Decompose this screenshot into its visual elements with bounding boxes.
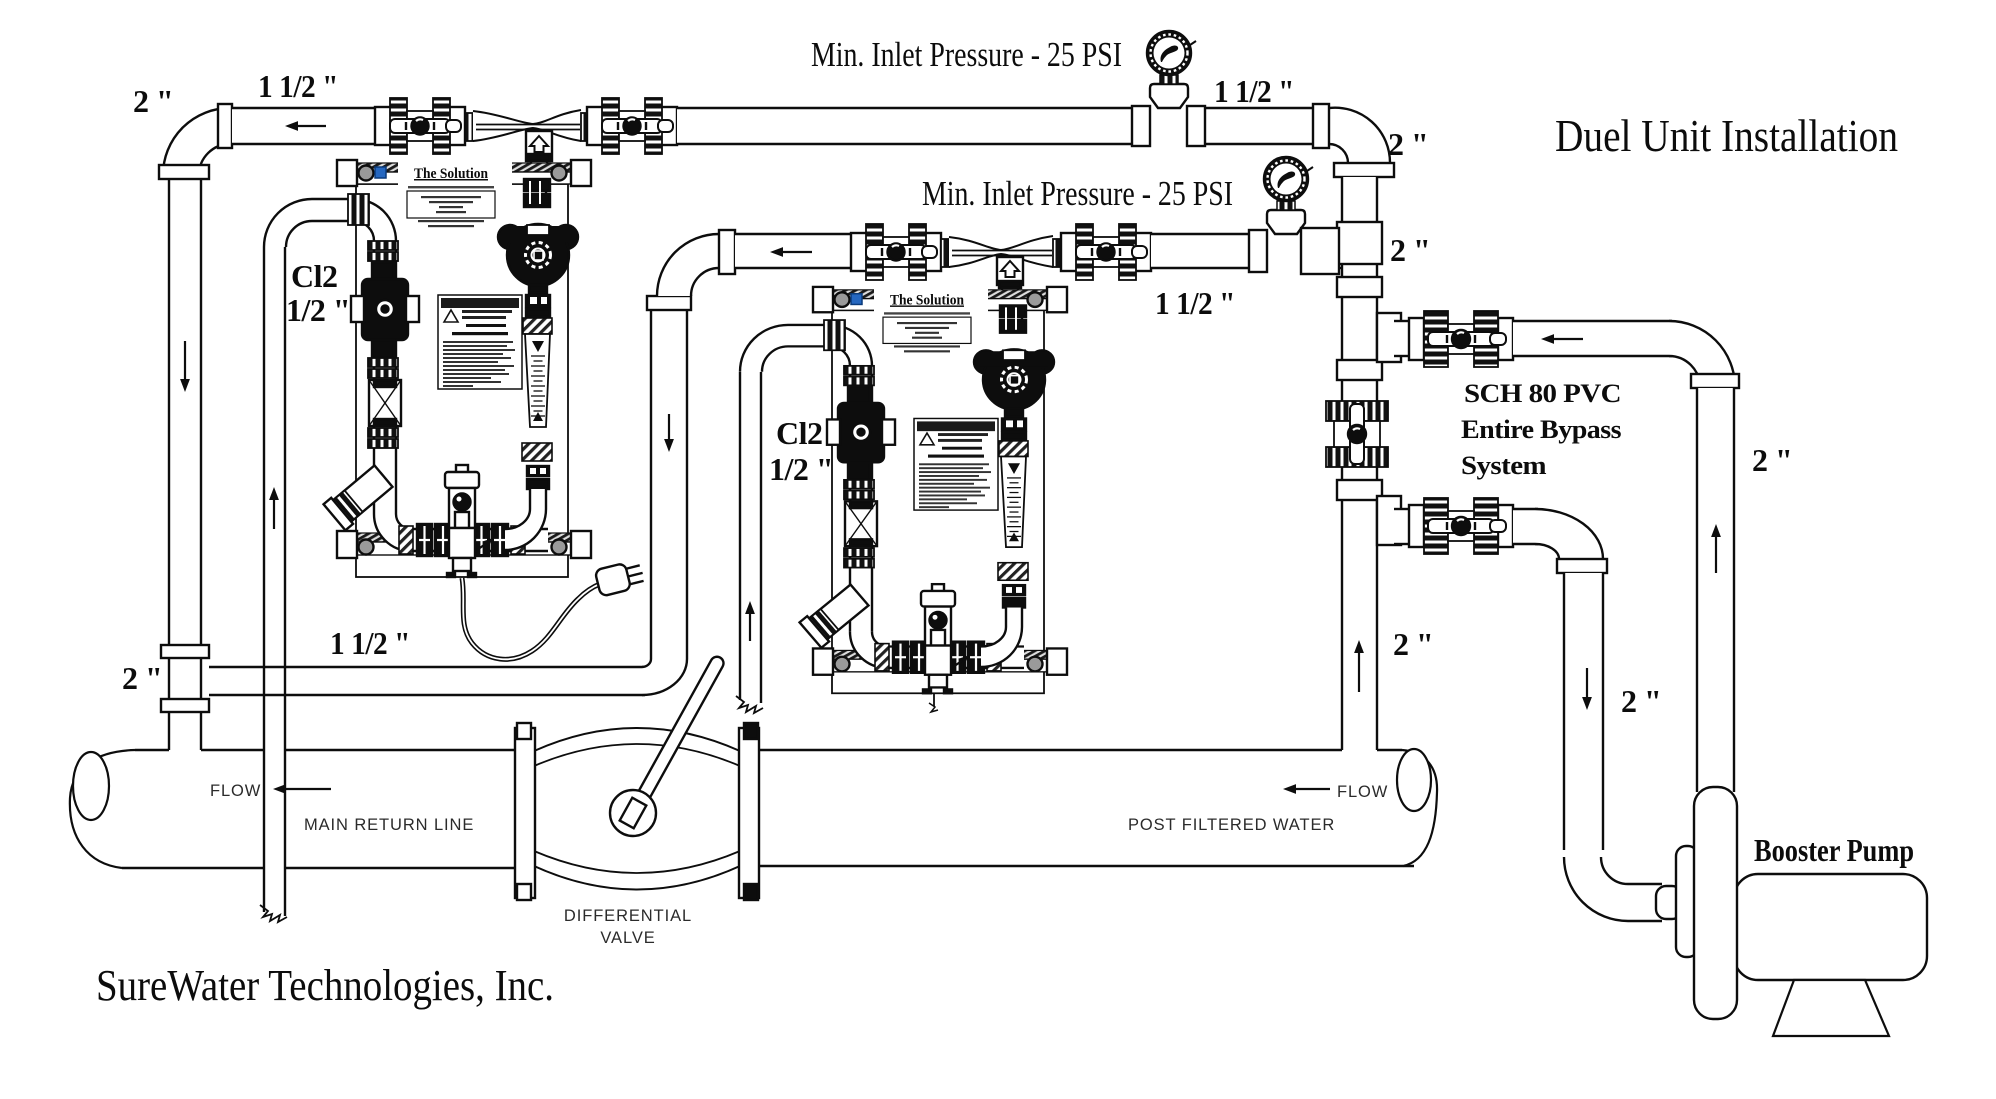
unit right bottom elbow xyxy=(505,509,546,550)
return pipe elbow up (E4) xyxy=(642,659,687,695)
unit bottom rail bolt left xyxy=(835,657,850,672)
unit1 Cl2 drop pipe xyxy=(263,247,265,912)
svg-text:Cl2: Cl2 xyxy=(776,415,823,451)
unit warning label box xyxy=(438,295,522,389)
venturi2 suction box and arrow fitting xyxy=(997,257,1023,285)
unit injection arrow mark xyxy=(953,657,967,667)
svg-text:1 1/2 ": 1 1/2 " xyxy=(330,625,410,661)
unit pump union xyxy=(1002,418,1026,430)
svg-text:Booster Pump: Booster Pump xyxy=(1754,832,1914,868)
unit manifold hatched nipple left xyxy=(399,526,413,554)
pressure gauge 1 dial xyxy=(1147,31,1191,75)
unit left union coupling 2 xyxy=(844,480,874,489)
run1 pipe segment B (long) xyxy=(677,108,1132,144)
unit left bottom elbow xyxy=(850,632,887,668)
column upper bypass tee xyxy=(1377,313,1401,362)
run1 venturi ribbed flange left xyxy=(465,113,473,141)
unit right suction pipe from venturi xyxy=(1006,305,1022,332)
pump inlet pipe xyxy=(1628,884,1662,921)
pressure gauge 2 stem xyxy=(1277,201,1295,210)
column tee coupling for run2 xyxy=(1337,222,1382,264)
solution unit panel frame xyxy=(832,310,1044,693)
svg-text:MAIN RETURN LINE: MAIN RETURN LINE xyxy=(304,816,474,834)
differential valve body xyxy=(534,728,740,890)
unit manifold hatched nipple left xyxy=(875,644,889,671)
unit left pipe top elbow xyxy=(354,199,396,241)
unit stub ribbed coupling xyxy=(824,320,845,350)
1 1/2 inch return pipe horizontal xyxy=(209,667,645,695)
unit check valve xyxy=(372,262,394,279)
unit right adapter blocks xyxy=(524,179,550,191)
bypass upper elbow (E5) xyxy=(1669,321,1735,387)
unit subtitle small text lines xyxy=(408,186,494,188)
run2 union ball valve 2 xyxy=(1061,233,1077,271)
unit bottom rail bolt right xyxy=(1028,657,1043,672)
bypass upper pipe xyxy=(1513,321,1672,356)
unit1 drop pipe break xyxy=(260,905,287,922)
differential valve hub circle xyxy=(610,790,656,836)
unit bottom rail bolt right xyxy=(552,540,567,555)
unit injection arrow mark xyxy=(477,540,491,550)
flow arrow up right pipe xyxy=(1715,537,1717,573)
unit pump neck xyxy=(1005,409,1023,417)
unit injection tick marks xyxy=(447,573,455,577)
main pipe left end cap xyxy=(70,750,135,868)
unit injection valve center xyxy=(932,584,944,593)
pump inlet reducer cap xyxy=(1656,886,1682,919)
svg-text:1/2 ": 1/2 " xyxy=(769,451,833,487)
differential valve left flange xyxy=(515,728,535,898)
main pipe right segment (post filtered water) xyxy=(515,750,1415,866)
unit top mounting rail xyxy=(813,290,1067,299)
svg-text:FLOW: FLOW xyxy=(210,782,261,800)
bypass upper elbow flange xyxy=(1691,374,1739,388)
run1 union ball valve 2 xyxy=(587,107,603,145)
unit left union coupling 3 xyxy=(844,548,874,557)
svg-text:The Solution: The Solution xyxy=(890,293,964,309)
unit manifold hatched nipple right xyxy=(987,644,1001,671)
unit right adapter blocks xyxy=(1000,305,1026,317)
unit flowmeter tube xyxy=(525,334,550,427)
unit rail bolt left xyxy=(835,292,850,307)
unit1 power cord xyxy=(462,578,600,659)
unit metering assembly xyxy=(845,501,877,546)
unit warning label box xyxy=(914,418,998,510)
unit rail logo square xyxy=(851,294,862,305)
svg-text:SCH 80 PVC: SCH 80 PVC xyxy=(1464,379,1621,408)
column vertical union valve xyxy=(1326,401,1388,421)
unit bottom mounting rail xyxy=(813,650,1067,659)
svg-text:SureWater Technologies, Inc.: SureWater Technologies, Inc. xyxy=(96,961,554,1010)
tee couplings on left pipe at return line xyxy=(161,645,209,658)
unit left union coupling 3 xyxy=(368,428,398,437)
svg-text:2 ": 2 " xyxy=(122,660,162,696)
vertical pipe from run2 elbow down to return (x651-687) xyxy=(651,310,687,659)
run1 elbow top-right (E2) xyxy=(1329,108,1390,163)
run2 pipe segment B xyxy=(1151,234,1249,268)
run1 pipe segment A xyxy=(232,108,376,144)
run2 venturi ribbed flange left xyxy=(941,239,949,267)
bypass lower elbow (E6) xyxy=(1535,509,1603,559)
unit1 power plug xyxy=(595,559,646,596)
run2 venturi injector xyxy=(949,236,1053,267)
pressure gauge 2 dial xyxy=(1264,157,1308,201)
unit rail bolt left xyxy=(359,166,374,181)
unit metering assembly xyxy=(369,380,401,426)
unit bottom mounting rail xyxy=(337,533,591,542)
svg-text:2 ": 2 " xyxy=(1393,626,1433,662)
unit manifold black unions left xyxy=(417,524,432,556)
unit2 Cl2 drop pipe xyxy=(739,372,741,700)
run2 pipe segment C xyxy=(1327,234,1342,268)
unit drop elbow xyxy=(264,199,312,247)
unit check valve xyxy=(848,386,870,403)
run1 pipe segment C xyxy=(1205,108,1313,144)
unit circulation pump xyxy=(974,350,998,373)
flow arrow up column xyxy=(1358,653,1360,692)
main pipe right end cap xyxy=(1402,750,1437,866)
unit flowmeter bottom collar xyxy=(522,443,552,461)
unit left pipe top elbow xyxy=(830,325,872,366)
unit1 drop pipe flow arrow up xyxy=(273,500,275,529)
svg-text:Min. Inlet Pressure - 25 PSI: Min. Inlet Pressure - 25 PSI xyxy=(811,35,1122,74)
unit injection valve center xyxy=(456,465,468,474)
run1 elbow top-left (E1) xyxy=(163,108,230,175)
unit flowmeter bottom union xyxy=(1003,585,1025,595)
unit label box xyxy=(407,191,495,218)
label FLOW right with arrow xyxy=(1296,788,1330,790)
svg-text:2 ": 2 " xyxy=(1390,232,1430,268)
differential valve right flange xyxy=(739,728,759,898)
svg-text:POST FILTERED WATER: POST FILTERED WATER xyxy=(1128,816,1335,834)
svg-text:Duel Unit Installation: Duel Unit Installation xyxy=(1555,110,1898,161)
svg-text:1 1/2 ": 1 1/2 " xyxy=(1214,73,1294,109)
unit left union coupling 2 xyxy=(368,358,398,367)
run2 union ball valve 1 xyxy=(851,233,867,271)
unit y-strainer xyxy=(324,463,395,530)
venturi1 suction box and arrow fitting xyxy=(526,131,552,161)
unit label box xyxy=(883,317,971,343)
pump motor body xyxy=(1734,874,1927,980)
unit rail bolt right xyxy=(552,166,567,181)
unit bottom rail bolt left xyxy=(359,540,374,555)
unit manifold black unions right xyxy=(950,642,965,673)
unit left union coupling xyxy=(368,241,398,250)
bypass right vertical pipe to pump xyxy=(1697,388,1734,792)
unit2 injection stub break xyxy=(933,693,935,706)
solution unit panel frame xyxy=(356,184,568,577)
unit injection tick marks xyxy=(923,689,931,693)
column coupling xyxy=(1337,277,1382,297)
unit y-strainer xyxy=(800,582,871,647)
run1 venturi ribbed flange right xyxy=(581,113,589,141)
svg-text:Min. Inlet Pressure - 25 PSI: Min. Inlet Pressure - 25 PSI xyxy=(922,174,1233,213)
flange under run2 left elbow xyxy=(647,296,691,310)
unit right bottom elbow xyxy=(981,627,1022,667)
bypass lower vertical pipe xyxy=(1564,573,1603,850)
unit flowmeter tube xyxy=(1001,456,1026,547)
unit subtitle small text lines xyxy=(884,312,970,314)
unit manifold black unions right xyxy=(474,524,489,556)
svg-text:VALVE: VALVE xyxy=(600,929,655,947)
svg-text:The Solution: The Solution xyxy=(414,166,489,182)
svg-text:Cl2: Cl2 xyxy=(291,258,338,294)
unit manifold hatched nipple right xyxy=(511,526,525,554)
svg-text:DIFFERENTIAL: DIFFERENTIAL xyxy=(564,907,692,925)
run2 pipe segment A xyxy=(735,234,851,268)
main return line pipe (bottom-left segment) xyxy=(95,750,515,868)
unit flowmeter top collar xyxy=(523,318,552,334)
svg-text:2 ": 2 " xyxy=(1752,442,1792,478)
right column vertical pipe xyxy=(1342,177,1377,750)
unit bottom manifold pipe xyxy=(408,529,548,551)
pressure gauge 1 tee xyxy=(1132,106,1150,146)
unit pump union xyxy=(526,295,550,307)
run2 venturi ribbed flange right xyxy=(1053,239,1061,267)
run1 flow arrow xyxy=(298,125,326,127)
bypass upper union ball valve xyxy=(1409,318,1424,360)
pump mounting flange xyxy=(1676,846,1698,957)
svg-text:System: System xyxy=(1461,451,1547,480)
unit left bottom elbow xyxy=(374,514,411,551)
run2 flow arrow xyxy=(783,251,812,253)
unit flowmeter bottom union xyxy=(527,466,549,476)
pump base xyxy=(1773,980,1889,1036)
column coupling 3 xyxy=(1337,480,1382,500)
svg-text:2 ": 2 " xyxy=(133,83,173,119)
unit left union coupling xyxy=(844,366,874,375)
unit bottom manifold pipe xyxy=(884,647,1024,668)
unit left pipe xyxy=(374,241,396,514)
unit right pipe lower xyxy=(530,489,546,509)
unit top mounting rail xyxy=(337,163,591,172)
run1 union ball valve 1 xyxy=(375,107,391,145)
unit2 drop pipe flow arrow up xyxy=(749,614,751,641)
unit rail bolt right xyxy=(1028,292,1043,307)
svg-text:Entire Bypass: Entire Bypass xyxy=(1461,415,1621,444)
svg-text:2 ": 2 " xyxy=(1388,126,1428,162)
left vertical 2 inch pipe xyxy=(169,177,201,750)
svg-text:1 1/2 ": 1 1/2 " xyxy=(258,68,338,104)
run2 elbow top-left (E3) xyxy=(657,234,719,296)
unit manifold black unions left xyxy=(893,642,908,673)
unit Cl2 stub pipe xyxy=(788,325,832,346)
unit flowmeter bottom collar xyxy=(998,563,1028,581)
unit drop elbow xyxy=(740,325,788,372)
column coupling 2 xyxy=(1337,360,1382,380)
svg-text:1/2 ": 1/2 " xyxy=(286,292,350,328)
bypass upper flow arrow xyxy=(1554,338,1583,340)
svg-text:1 1/2 ": 1 1/2 " xyxy=(1155,285,1235,321)
unit right suction pipe from venturi xyxy=(530,179,546,207)
unit right pipe lower xyxy=(1006,608,1022,627)
flow arrow down lower pipe xyxy=(1586,668,1588,697)
column lower bypass tee xyxy=(1377,496,1401,545)
unit left pipe xyxy=(850,366,872,632)
unit circulation pump xyxy=(498,225,522,249)
svg-text:2 ": 2 " xyxy=(1621,683,1661,719)
bypass lower elbow flange xyxy=(1557,559,1607,573)
bypass lower pipe stub xyxy=(1513,509,1538,544)
unit2 drop pipe break xyxy=(736,696,763,713)
flow arrow down on left pipe xyxy=(184,341,186,379)
pressure gauge 2 tee xyxy=(1249,230,1267,272)
unit pump neck xyxy=(529,285,547,293)
bypass lower union ball valve xyxy=(1409,505,1424,547)
run1 venturi injector xyxy=(473,110,581,141)
unit stub ribbed coupling xyxy=(348,194,369,225)
svg-text:FLOW: FLOW xyxy=(1337,783,1388,801)
pressure gauge 1 stem xyxy=(1160,75,1178,84)
unit rail logo square xyxy=(375,167,386,178)
differential valve handle xyxy=(621,654,725,828)
unit Cl2 stub pipe xyxy=(312,199,356,221)
unit flowmeter top collar xyxy=(999,441,1028,457)
flow arrow down on x669 pipe xyxy=(668,414,670,439)
bypass lower bottom elbow (E7) xyxy=(1564,857,1628,921)
pump impeller housing xyxy=(1694,787,1737,1019)
